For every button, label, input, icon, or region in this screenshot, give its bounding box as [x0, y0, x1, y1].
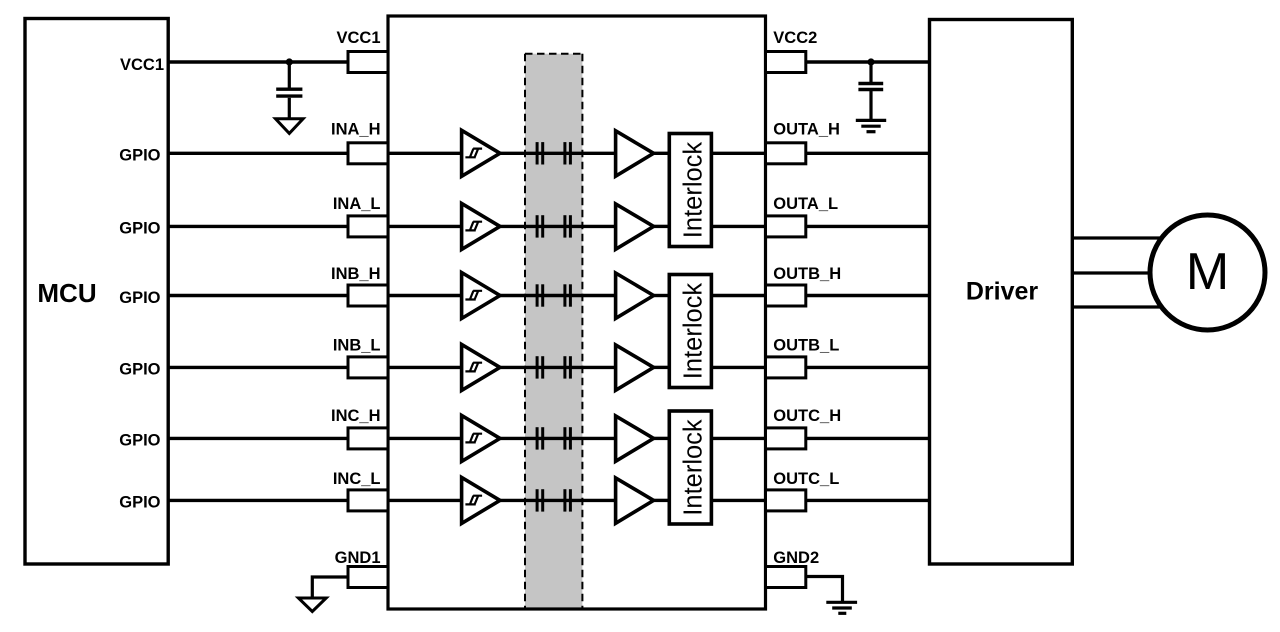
svg-text:GPIO: GPIO	[119, 494, 160, 512]
capacitor C2 (VCC2 decoupling)	[858, 62, 883, 120]
wire motor phase A	[1072, 236, 1162, 239]
schmitt trigger ch6	[462, 477, 500, 523]
svg-text:GPIO: GPIO	[119, 147, 160, 165]
earth ground under C2	[856, 120, 886, 131]
capacitor C1 (VCC1 decoupling)	[276, 62, 302, 119]
pin INC_L	[348, 490, 388, 511]
wire GND2 pin to ground	[806, 577, 843, 602]
svg-text:INC_L: INC_L	[333, 470, 381, 488]
interlock B box	[669, 275, 711, 388]
node VCC2 junction	[867, 58, 874, 65]
pin OUTA_L	[766, 216, 806, 237]
node VCC1 junction	[286, 58, 293, 65]
svg-text:GPIO: GPIO	[119, 220, 160, 238]
svg-text:M: M	[1186, 243, 1229, 301]
interlock C box	[669, 411, 711, 524]
pin INA_H	[348, 143, 388, 164]
svg-text:GPIO: GPIO	[119, 361, 160, 379]
barrier capacitors ch1	[537, 142, 570, 164]
interlock A box	[669, 134, 711, 247]
wire motor phase B	[1072, 271, 1162, 274]
schmitt trigger ch3	[462, 273, 500, 319]
barrier capacitors ch6	[537, 489, 570, 511]
svg-text:GND1: GND1	[335, 549, 381, 567]
schmitt trigger ch5	[462, 415, 500, 461]
ground (signal) GND1	[298, 598, 326, 612]
barrier capacitors ch2	[537, 215, 570, 237]
svg-text:GND2: GND2	[773, 549, 819, 567]
MCU box	[25, 19, 168, 565]
wire INC_H row	[168, 437, 930, 440]
svg-text:Interlock: Interlock	[680, 419, 708, 516]
output buffer ch6	[616, 478, 654, 523]
wire motor phase C	[1072, 305, 1162, 308]
output buffer ch5	[616, 416, 654, 461]
svg-text:INB_H: INB_H	[331, 265, 381, 283]
wire INC_L row	[168, 499, 930, 502]
svg-text:OUTA_H: OUTA_H	[773, 120, 840, 138]
barrier capacitors ch3	[537, 284, 570, 306]
barrier dashed border top	[525, 53, 582, 55]
pin GND1	[348, 567, 388, 588]
output buffer ch3	[616, 273, 654, 318]
Driver box	[930, 20, 1073, 565]
pin GND2	[766, 567, 806, 588]
isolation barrier gray band	[525, 54, 582, 609]
barrier dashed border right	[581, 54, 583, 608]
svg-text:Interlock: Interlock	[680, 142, 708, 239]
pin INB_L	[348, 357, 388, 378]
svg-text:INC_H: INC_H	[331, 407, 381, 425]
pin VCC1	[348, 52, 388, 73]
wire GND1 pin to ground	[312, 577, 348, 598]
svg-text:MCU: MCU	[37, 278, 96, 308]
svg-text:OUTC_H: OUTC_H	[773, 407, 841, 425]
svg-text:INA_L: INA_L	[333, 195, 381, 213]
svg-text:GPIO: GPIO	[119, 289, 160, 307]
wire INA_L row	[168, 225, 930, 228]
pin INC_H	[348, 428, 388, 449]
schmitt trigger ch1	[462, 130, 500, 176]
wire INB_L row	[168, 366, 930, 369]
output buffer ch1	[616, 131, 654, 176]
pin OUTB_H	[766, 285, 806, 306]
earth ground GND2	[826, 602, 857, 613]
output buffer ch2	[616, 204, 654, 249]
wire INA_H row (MCU GPIO to isolator, through channel, to Driver)	[168, 152, 930, 155]
pin OUTC_H	[766, 428, 806, 449]
pin INA_L	[348, 216, 388, 237]
barrier dashed border left	[524, 54, 526, 608]
pin VCC2	[766, 52, 806, 73]
svg-text:INA_H: INA_H	[331, 120, 381, 138]
wire VCC1 net: MCU to VCC1 pin	[168, 60, 348, 63]
output buffer ch4	[616, 345, 654, 390]
svg-text:OUTA_L: OUTA_L	[773, 195, 838, 213]
ground (signal) under C1	[276, 119, 304, 134]
pin OUTA_H	[766, 143, 806, 164]
svg-text:Interlock: Interlock	[680, 283, 708, 380]
svg-text:OUTB_L: OUTB_L	[773, 337, 839, 355]
pin INB_H	[348, 285, 388, 306]
pin OUTC_L	[766, 490, 806, 511]
schmitt trigger ch4	[462, 344, 500, 390]
pin OUTB_L	[766, 357, 806, 378]
wire INB_H row	[168, 294, 930, 297]
isolator box U1	[388, 16, 766, 609]
svg-text:VCC1: VCC1	[336, 29, 380, 47]
svg-text:INB_L: INB_L	[333, 337, 381, 355]
barrier capacitors ch4	[537, 356, 570, 378]
svg-text:Driver: Driver	[966, 278, 1039, 306]
svg-text:VCC1: VCC1	[120, 56, 164, 74]
svg-text:VCC2: VCC2	[773, 29, 817, 47]
svg-text:OUTC_L: OUTC_L	[773, 470, 839, 488]
motor M1	[1150, 215, 1265, 330]
svg-text:GPIO: GPIO	[119, 432, 160, 450]
wire VCC2 net: VCC2 pin to Driver	[806, 60, 930, 63]
barrier capacitors ch5	[537, 427, 570, 449]
schmitt trigger ch2	[462, 203, 500, 249]
svg-text:OUTB_H: OUTB_H	[773, 265, 841, 283]
